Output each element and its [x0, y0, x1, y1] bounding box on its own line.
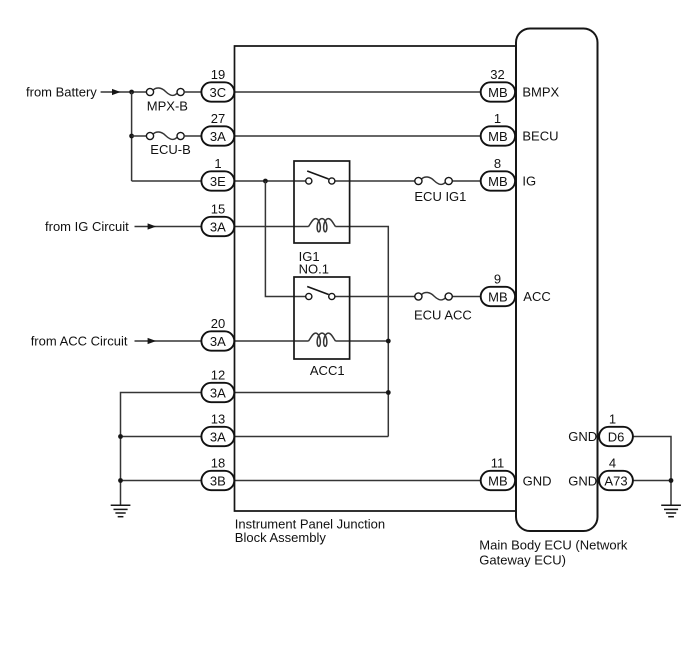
wire ECU ACC fuse to MB [452, 296, 481, 298]
wire row6 3A-20 to coil [234, 340, 308, 342]
svg-text:MB: MB [488, 129, 508, 144]
svg-text:NO.1: NO.1 [299, 262, 329, 277]
svg-text:1: 1 [214, 156, 221, 171]
label Instrument Panel Junction Block Assembly [235, 516, 385, 545]
wire row18 left [121, 480, 202, 482]
wire row2 to fuse [132, 135, 147, 137]
node right bus A73 [669, 478, 674, 483]
wire coil ACC1 out to bus [335, 340, 388, 342]
relay IG1 [294, 161, 350, 277]
label Main Body ECU [479, 538, 628, 568]
wire fuse ECU-B to 3A [184, 135, 201, 137]
svg-text:32: 32 [490, 67, 504, 82]
svg-text:3A: 3A [210, 429, 226, 444]
ECU box [516, 29, 598, 532]
connector 3A pin 15 [201, 202, 234, 236]
wire row3 3E to relay IG1 [234, 180, 308, 182]
svg-text:A73: A73 [604, 473, 627, 488]
svg-text:3A: 3A [210, 219, 226, 234]
node row18 left bus [118, 478, 123, 483]
connector 3A pin 27 [201, 111, 234, 145]
junction block box [235, 46, 517, 511]
wire ACC switch to ECU ACC fuse [332, 296, 415, 298]
wire row12 left [121, 393, 202, 506]
connector 3B pin 18 [201, 456, 234, 490]
wire coil IG1 out to bus [335, 227, 388, 437]
connector 3C pin 19 [201, 67, 234, 101]
svg-text:MPX-B: MPX-B [147, 99, 188, 114]
node row13 left bus [118, 434, 123, 439]
svg-text:from IG Circuit: from IG Circuit [45, 219, 129, 234]
svg-text:12: 12 [211, 368, 225, 383]
ground left [111, 505, 131, 517]
svg-text:ECU ACC: ECU ACC [414, 308, 472, 323]
svg-text:20: 20 [211, 316, 225, 331]
svg-text:3E: 3E [210, 174, 226, 189]
svg-text:Gateway ECU): Gateway ECU) [479, 552, 566, 567]
wire fuse MPX-B to 3C [184, 91, 201, 93]
node battery junction row2 [129, 134, 134, 139]
svg-text:3A: 3A [210, 334, 226, 349]
wire ECU IG1 fuse to MB [452, 180, 481, 182]
svg-text:1: 1 [609, 412, 616, 427]
svg-text:13: 13 [211, 412, 225, 427]
connector MB pin 8 IG [481, 156, 536, 190]
arrow from ACC Circuit [148, 338, 157, 344]
connector 3A pin 20 [201, 316, 234, 350]
connector MB pin 9 ACC [481, 272, 551, 306]
connector MB pin 1 BECU [481, 111, 559, 145]
connector 3A pin 12 [201, 368, 234, 402]
svg-text:15: 15 [211, 202, 225, 217]
relay ACC1 [294, 277, 350, 378]
svg-text:3C: 3C [209, 85, 226, 100]
wire row2 inside block (3A to MB BECU) [234, 135, 480, 137]
fuse ECU IG1 [414, 177, 466, 204]
svg-text:MB: MB [488, 473, 508, 488]
wire bus to 3E [132, 180, 202, 182]
wire D6 to right bus [633, 437, 671, 506]
svg-text:BMPX: BMPX [522, 85, 559, 100]
node battery junction row1 [129, 90, 134, 95]
svg-text:Main Body ECU (Network: Main Body ECU (Network [479, 538, 628, 553]
svg-text:ECU IG1: ECU IG1 [414, 189, 466, 204]
svg-text:ECU-B: ECU-B [150, 142, 190, 157]
arrow from IG Circuit [148, 223, 157, 229]
wire IG arrow line [135, 226, 201, 228]
wire A73 to right bus [633, 480, 671, 482]
wire row13 left [121, 436, 202, 438]
wire row18 inside (3B to MB GND) [234, 480, 480, 482]
arrow from Battery [112, 89, 121, 95]
wire ACC arrow line [135, 340, 201, 342]
node bus row6 [386, 339, 391, 344]
svg-text:BECU: BECU [522, 129, 558, 144]
svg-text:3A: 3A [210, 385, 226, 400]
ground right [661, 505, 681, 517]
connector 3E pin 1 [201, 156, 234, 190]
connector A73 pin 4 GND [568, 456, 633, 490]
node bus row12 [386, 390, 391, 395]
wire row4 3A-15 to coil [234, 226, 308, 228]
svg-text:MB: MB [488, 85, 508, 100]
svg-text:3A: 3A [210, 129, 226, 144]
svg-text:3B: 3B [210, 473, 226, 488]
svg-text:D6: D6 [608, 429, 625, 444]
svg-text:GND: GND [523, 474, 552, 489]
wire row1 inside block (3C to MB BMPX) [234, 91, 480, 93]
wire 3E junction down to ACC switch row [265, 181, 308, 297]
svg-text:19: 19 [211, 67, 225, 82]
connector MB pin 32 BMPX [481, 67, 560, 101]
svg-text:ACC: ACC [523, 289, 550, 304]
svg-text:1: 1 [494, 111, 501, 126]
svg-text:GND: GND [568, 429, 597, 444]
svg-text:9: 9 [494, 272, 501, 287]
connector MB pin 11 GND [481, 456, 552, 490]
svg-text:IG: IG [522, 174, 536, 189]
svg-text:27: 27 [211, 111, 225, 126]
svg-text:MB: MB [488, 174, 508, 189]
svg-text:ACC1: ACC1 [310, 363, 345, 378]
svg-text:18: 18 [211, 456, 225, 471]
wire battery vertical bus [131, 92, 133, 181]
fuse ECU-B [146, 132, 190, 157]
svg-text:from Battery: from Battery [26, 85, 97, 100]
svg-text:8: 8 [494, 156, 501, 171]
wire battery arrow to junction [101, 91, 147, 93]
connector 3A pin 13 [201, 412, 234, 446]
wire IG1 switch to ECU IG1 fuse [332, 180, 415, 182]
svg-text:from ACC Circuit: from ACC Circuit [31, 333, 128, 348]
svg-text:11: 11 [491, 456, 505, 471]
svg-text:MB: MB [488, 289, 508, 304]
wire row13 inside to bus [234, 436, 388, 438]
svg-text:GND: GND [568, 473, 597, 488]
fuse ECU ACC [414, 292, 472, 322]
node 3E junction [263, 179, 268, 184]
wire row12 inside to bus [234, 392, 388, 394]
fuse MPX-B [146, 88, 188, 114]
svg-text:Block Assembly: Block Assembly [235, 530, 327, 545]
svg-text:4: 4 [609, 456, 616, 471]
connector D6 pin 1 GND [568, 412, 633, 446]
